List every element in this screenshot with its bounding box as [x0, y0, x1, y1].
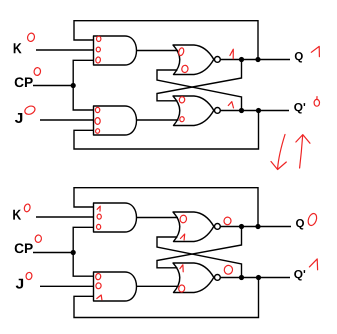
annotation 1 at A4 pin3: [97, 295, 102, 300]
label CP input: [15, 77, 33, 87]
node Q' junction 3: [239, 275, 244, 280]
NOR gate G3: [173, 212, 214, 242]
annotation 0 at K: [27, 32, 36, 42]
wire CP junction up to AND A1 pin3: [73, 60, 93, 85]
node CP junction 2: [71, 250, 76, 255]
wire Q output line 2: [220, 226, 291, 228]
annotation 1 at Q' 2: [309, 259, 317, 270]
annotation 0 at A3 pin3: [97, 224, 101, 229]
annotation 0 at A4 pin2: [95, 282, 101, 289]
wire cross-couple Q' to NOR G1 input: [157, 70, 242, 111]
annotation 0 at A4 pin1: [95, 273, 101, 280]
NOR gate G1: [173, 45, 214, 75]
annotation 0 at A3 pin2: [97, 214, 101, 219]
label CP input 2: [15, 243, 33, 253]
node CP junction: [71, 83, 76, 88]
wire CP to junction 2: [33, 252, 73, 254]
annotation 0 at K 2: [23, 203, 30, 212]
annotation 0 at G4 input bottom: [178, 285, 185, 293]
annotation 1 at G1 output: [230, 49, 233, 59]
annotation 0 at G3 input top: [179, 215, 187, 224]
node Q' junction 1: [239, 108, 244, 113]
annotation 1 at G2 output: [228, 102, 233, 108]
wire K to AND gate A3: [36, 216, 94, 218]
annotation 0 at G2 input bottom: [179, 116, 184, 122]
AND gate A3: [94, 203, 137, 232]
label K input 2: [13, 210, 21, 220]
annotation 0 at G4 output: [223, 264, 233, 275]
wire A3 output to NOR G3: [137, 217, 179, 219]
NOR gate G3 bubble: [215, 224, 221, 230]
NOR gate G2 bubble: [215, 108, 221, 114]
label Q' output: [294, 103, 305, 114]
NOR gate G1 bubble: [215, 57, 221, 63]
wire A1 output to NOR G1: [137, 50, 179, 52]
annotation 0 at CP 2: [35, 235, 42, 243]
wire Q output line: [220, 59, 290, 61]
NOR gate G2: [173, 96, 214, 126]
annotation 0 at G1 input bottom: [181, 65, 188, 73]
label Q' output 2: [294, 270, 305, 281]
node Q junction 1: [239, 57, 244, 62]
annotation 1 at G4 input top: [180, 265, 183, 272]
AND gate A2: [94, 106, 137, 135]
annotation 0 at A2 pin1: [95, 107, 99, 112]
wire A4 output to NOR G4: [137, 285, 179, 287]
annotation 0 at Q 2: [307, 212, 319, 226]
wire cross-couple Q' to NOR G3 input: [157, 237, 242, 278]
node Q junction 4: [255, 224, 260, 229]
wire K to AND gate A1: [36, 49, 94, 51]
wire cross-couple Q to NOR G2 input: [157, 60, 242, 101]
NOR gate G4 bubble: [215, 275, 221, 281]
node Q junction 2: [255, 57, 260, 62]
wire J to AND gate A2: [40, 119, 94, 121]
label Q output 2: [296, 219, 304, 230]
annotation 0 at G3 output: [223, 217, 231, 226]
label J input 2: [16, 279, 23, 289]
annotation 0 at J 2: [26, 272, 33, 280]
wire J to AND gate A4: [40, 285, 94, 287]
label J input: [15, 113, 22, 123]
annotation 0 at A1 pin1: [97, 36, 101, 41]
annotation arrow up between circuits: [296, 135, 310, 168]
wire feedback Q' to AND A2 pin3 (bottom rail): [74, 111, 259, 150]
annotation 0 at A2 pin2: [95, 118, 100, 125]
node Q junction 3: [239, 224, 244, 229]
annotation 1 at Q: [311, 46, 319, 56]
annotation 0 at A2 pin3: [95, 128, 100, 133]
AND gate A1: [94, 36, 137, 65]
annotation 1 at G3 input bottom: [180, 234, 184, 240]
wire CP junction down to AND A4 pin1: [73, 253, 93, 277]
annotation 0 at A1 pin3: [95, 57, 101, 64]
wire CP junction down to AND A2 pin1: [73, 86, 93, 111]
NOR gate G4: [173, 263, 214, 293]
annotation 1 at A3 pin1: [97, 206, 100, 211]
wire feedback Q to AND A3 pin1 (top rail 2): [74, 188, 258, 227]
label K input: [14, 43, 22, 53]
annotation arrow down between circuits: [271, 135, 286, 170]
annotation 0 at G1 input top: [178, 47, 185, 56]
annotation 0 at J: [23, 105, 36, 116]
wire A2 output to NOR G2: [137, 119, 179, 121]
wire CP to junction: [33, 85, 73, 87]
wire Q' output line 2: [220, 277, 290, 279]
label Q output: [295, 52, 303, 63]
wire feedback Q to AND A1 pin1 (top rail): [74, 21, 258, 60]
annotation 0 at A1 pin2: [96, 47, 100, 52]
wire Q' output line: [220, 110, 289, 112]
node Q' junction 4: [256, 275, 261, 280]
wire cross-couple Q to NOR G4 input: [157, 227, 242, 268]
annotation 0 at CP: [33, 67, 41, 76]
AND gate A4: [94, 272, 137, 301]
annotation 0 at G2 input top: [179, 96, 185, 103]
wire CP junction up to AND A3 pin3: [73, 227, 93, 252]
wire feedback Q' to AND A4 pin3 (bottom rail 2): [74, 278, 259, 318]
node Q' junction 2: [256, 108, 261, 113]
annotation 0 at Q': [314, 97, 319, 107]
